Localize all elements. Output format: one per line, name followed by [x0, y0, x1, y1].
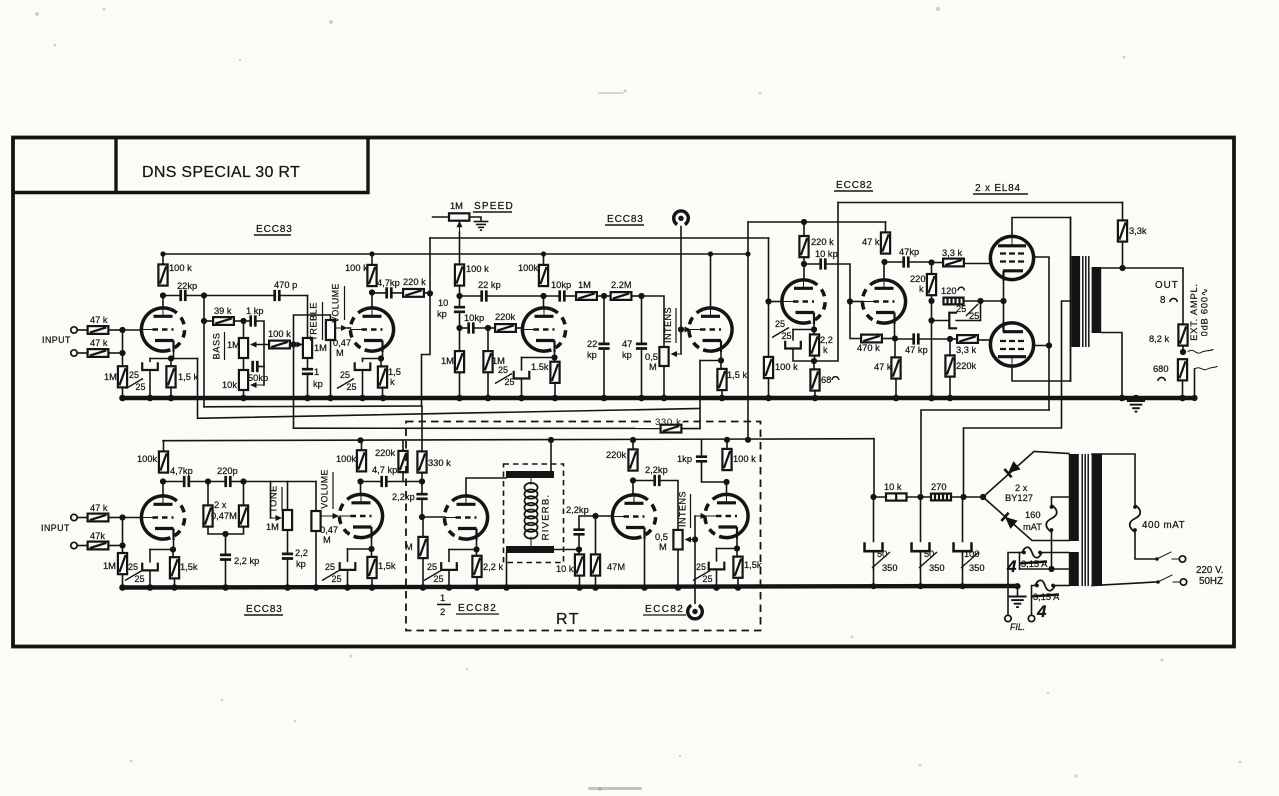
- resistor 100k (V1b plate load): [367, 265, 376, 286]
- resistor 270 ohm (PSU filter, wirewound): [931, 494, 951, 501]
- node V3b plate: [881, 259, 887, 265]
- svg-text:25: 25: [340, 370, 350, 380]
- potentiometer 10k (bass shunt): [239, 370, 248, 390]
- junction on ch1 bus x=362.5: [359, 395, 366, 402]
- svg-text:220k: 220k: [606, 450, 627, 460]
- node ch2 grid junction: [119, 514, 125, 520]
- node filament common: [1048, 566, 1054, 572]
- NFB wire to treble network: [293, 345, 295, 429]
- svg-text:100 k: 100 k: [268, 329, 291, 339]
- node treble wiper junction: [290, 341, 296, 347]
- resistor 2.2k (V3a cathode): [810, 334, 819, 355]
- wire wiper riser to V6b grid and jack: [694, 516, 696, 603]
- wire 8.2k to node: [1182, 346, 1184, 352]
- wire V3b cathode: [894, 325, 896, 339]
- node 39k input: [201, 318, 207, 324]
- wire 220k bottom: [402, 472, 404, 481]
- potentiometer TREBLE 1M: [303, 338, 312, 358]
- diode BY127 (upper): [1004, 461, 1020, 477]
- wire to 2.2kp ch2: [225, 534, 227, 553]
- resistor 47k (V3b cathode): [891, 357, 900, 378]
- wire 1.5k V6b to bus: [737, 578, 739, 588]
- junction on ch2 bus x=506.5: [503, 584, 510, 591]
- svg-text:0,47: 0,47: [333, 338, 351, 348]
- junction on ch1 bus x=1122: [1119, 395, 1126, 402]
- wire V4b plate: [360, 482, 362, 495]
- wire to rail: [543, 254, 545, 265]
- title box: [13, 138, 368, 193]
- svg-text:50: 50: [877, 549, 887, 559]
- wire SPEED left lead: [433, 216, 449, 218]
- input terminal 2 (ch2): [71, 542, 77, 548]
- node B+ rail ch1 left end: [160, 251, 165, 256]
- svg-text:4,7kp: 4,7kp: [170, 466, 193, 476]
- wire 47kp2 to node: [918, 338, 950, 340]
- node V6a plate: [630, 477, 636, 483]
- junction on ch2 bus x=316: [313, 584, 320, 591]
- resistor 100k (tone): [269, 341, 290, 349]
- wire send line into 330k: [421, 406, 423, 451]
- wire elco to bus: [149, 570, 151, 587]
- wire to BASS pot: [243, 321, 245, 338]
- wire 50kp right to wiper line: [257, 366, 264, 368]
- node rail at V2b: [708, 251, 713, 256]
- svg-text:8: 8: [1160, 295, 1166, 306]
- svg-text:10 kp: 10 kp: [815, 249, 838, 259]
- svg-text:2,2kp: 2,2kp: [392, 492, 415, 502]
- node rectifier output: [980, 494, 986, 500]
- svg-text:10: 10: [438, 298, 448, 308]
- svg-text:k: k: [390, 377, 395, 387]
- svg-text:220 V.: 220 V.: [1196, 565, 1223, 576]
- wire cathode to elco V4b: [348, 548, 372, 550]
- wire x=204 down (crosses bus): [203, 321, 205, 407]
- potentiometer VOLUME 0.47M (ch2): [311, 511, 320, 531]
- svg-text:47: 47: [622, 339, 632, 349]
- wire elco lead V5a: [448, 550, 450, 564]
- wire 680 to bus: [1182, 380, 1184, 398]
- wire to elco 25/25: [149, 359, 151, 364]
- triode V2b (ECC83): [689, 308, 732, 352]
- wire 22kp to bus: [603, 351, 605, 399]
- capacitor 47kp (shunt): [636, 344, 647, 349]
- wire reverb top bar to B+ rail: [550, 440, 552, 471]
- resistor 0.47M b (ch2 divider): [239, 505, 248, 526]
- svg-text:0,47M: 0,47M: [211, 511, 237, 521]
- node 120ohm left: [928, 298, 934, 304]
- capacitor 50/350 (PSU filter): [912, 542, 930, 551]
- wire 100k down: [459, 286, 461, 296]
- node V4a plate: [160, 478, 166, 484]
- node ch1 grid junction: [119, 327, 125, 333]
- resistor 120 ohm (cathode bias, wirewound): [944, 298, 964, 305]
- svg-text:47kp: 47kp: [899, 247, 919, 257]
- wire V6a plate: [632, 481, 634, 496]
- resistor 1M (V2a grid leak): [483, 351, 492, 372]
- wire 10kp to V3b grid: [825, 264, 850, 302]
- junction on ch2 bus x=579.5: [576, 584, 583, 591]
- capacitor 47kp (to EL84 grid 2): [914, 333, 919, 344]
- junction on B+ rail x=360.5: [357, 437, 363, 443]
- capacitor 25/25 (V6b bypass): [709, 562, 725, 570]
- node ch1 input b junction: [119, 350, 125, 356]
- svg-text:1M: 1M: [227, 340, 240, 350]
- junction on ch1 bus x=931.5: [928, 395, 935, 402]
- node V3a grid: [765, 298, 771, 304]
- wire EL84 cathodes common: [1003, 281, 1005, 332]
- wire cathode to elco V5a: [449, 549, 477, 551]
- svg-text:RIVERB.: RIVERB.: [541, 494, 552, 541]
- junction on ch2 bus x=122.5: [119, 584, 126, 591]
- svg-text:ECC83: ECC83: [256, 224, 293, 235]
- node PSU ground: [1014, 583, 1020, 589]
- svg-text:1.5k: 1.5k: [531, 362, 549, 372]
- wire fuse2 right: [1055, 585, 1069, 587]
- wire 1M b to bus: [487, 372, 489, 398]
- potentiometer TONE 1M: [283, 510, 292, 530]
- resistor 100k (V4b plate load): [357, 450, 366, 471]
- svg-text:25: 25: [703, 574, 713, 584]
- svg-text:kp: kp: [587, 350, 597, 360]
- wire elco lead V6b: [716, 549, 718, 563]
- ground bus (channel 1): [123, 396, 1195, 400]
- wire 47kp to bus: [641, 351, 643, 399]
- svg-text:1 kp: 1 kp: [246, 306, 264, 316]
- capacitor 1kp (tone): [251, 315, 256, 326]
- svg-text:47 k: 47 k: [90, 338, 108, 348]
- wire 2.2k to node: [814, 356, 816, 361]
- resistor 220k (grid stopper): [495, 324, 516, 332]
- svg-text:1,5: 1,5: [388, 367, 401, 377]
- resistor 47k (ch1 input b): [88, 349, 109, 357]
- wire node to 0.5M pot top: [642, 296, 665, 347]
- resistor 2.2M (intens divider): [611, 292, 632, 300]
- junction on ch2 bus x=477: [474, 584, 481, 591]
- junction on ch1 bus x=768.5: [765, 395, 772, 402]
- wire 4.7kp to 220k: [391, 292, 403, 294]
- wire BASS bottom to bus: [243, 358, 245, 398]
- wire to 1.5k V1b: [380, 359, 382, 367]
- wire primary top to 400mAT fuse: [1092, 454, 1135, 505]
- svg-text:4: 4: [1036, 602, 1047, 621]
- wire node to 1kp: [244, 320, 251, 322]
- wire 220k to V2a grid: [516, 327, 523, 329]
- wire ext amp ground lead (squiggle): [1194, 369, 1196, 398]
- resistor 10k (reverb load): [575, 554, 584, 575]
- capacitor 2.2kp (tone shunt ch2): [282, 554, 293, 559]
- svg-text:330 k: 330 k: [428, 458, 451, 468]
- svg-text:10 k: 10 k: [884, 482, 902, 492]
- reverb input transducer bar: [506, 471, 554, 478]
- svg-text:3,3 k: 3,3 k: [942, 248, 963, 258]
- node ch2 input b: [119, 542, 125, 548]
- svg-text:M: M: [323, 535, 331, 545]
- node elco 25/25 left: [928, 317, 934, 323]
- output jack (RT out): [688, 605, 703, 619]
- svg-text:47k: 47k: [90, 531, 105, 541]
- transformer T2 primary winding: [1092, 454, 1102, 586]
- wire elco lead: [362, 359, 364, 364]
- wire tone top: [287, 482, 289, 511]
- wire to 1.5k V6b: [736, 549, 738, 557]
- svg-text:2,2: 2,2: [295, 548, 308, 558]
- node NFB takeoff: [1119, 265, 1125, 271]
- resistor 220k (ch2 mix): [398, 451, 407, 472]
- input terminal 1 (ch2): [71, 514, 77, 520]
- wire elco lead: [149, 550, 151, 564]
- wire 3.3k2 to EL84b grid: [978, 339, 991, 341]
- reverb output transducer bar: [506, 546, 554, 553]
- node secondary ground: [1119, 395, 1125, 401]
- wire 47k to rail: [885, 222, 887, 232]
- wire cathode to 1.5k: [720, 361, 722, 369]
- svg-text:120: 120: [941, 286, 957, 296]
- svg-text:220k: 220k: [956, 361, 977, 371]
- wire ch2 input2: [77, 545, 87, 547]
- junction on ch2 bus x=644.5: [641, 584, 648, 591]
- wire secondary top to output: [1101, 268, 1183, 325]
- wire 220k to vertical: [424, 292, 430, 294]
- svg-text:25: 25: [969, 311, 979, 321]
- svg-text:25: 25: [332, 574, 342, 584]
- capacitor 25/25 (EL84 cathode bypass): [949, 313, 957, 329]
- svg-text:1kp: 1kp: [677, 454, 692, 464]
- wiper SPEED pot: [459, 226, 461, 232]
- resistor 1M (tremolo leak): [455, 351, 464, 372]
- wire to 0.47M a: [207, 482, 209, 506]
- junction on ch1 bus x=243.5: [240, 395, 247, 402]
- svg-text:220k: 220k: [495, 312, 516, 322]
- wire treble node to volume top: [294, 315, 331, 345]
- wire elco left lead: [932, 320, 949, 322]
- capacitor 25/25 (V3a bypass): [785, 341, 801, 349]
- svg-text:0,47: 0,47: [320, 525, 338, 535]
- wiper 10k pot: [255, 384, 264, 386]
- wire ch2 input1: [77, 517, 87, 519]
- wire V3a grid lead: [769, 301, 783, 303]
- wire NFB line B: [198, 359, 701, 419]
- wire V5a plate to reverb coil: [466, 478, 506, 496]
- wire 220k to RT rail: [632, 440, 634, 449]
- wire to 0.47M b: [243, 482, 245, 506]
- node V6b cathode: [734, 545, 740, 551]
- wire to 39k: [204, 320, 213, 322]
- wiper TREBLE pot: [290, 344, 298, 346]
- wire 1kp to 50kp vertical: [255, 321, 264, 367]
- wire node to 1M b: [487, 328, 489, 351]
- triode V6b (ECC82 RT output): [705, 494, 748, 538]
- svg-text:47 k: 47 k: [874, 362, 892, 372]
- capacitor 50kp (bass): [253, 361, 258, 372]
- junction filter cap ground x=920.5: [917, 583, 923, 589]
- wire to V5a grid: [422, 516, 445, 518]
- wire elco lead v2a: [521, 358, 523, 372]
- capacitor 25/25 (V4a bypass): [142, 563, 158, 571]
- resistor 1M (ch1 grid leak): [118, 366, 127, 387]
- svg-text:25: 25: [956, 304, 966, 314]
- wire elco to bus v2a: [521, 379, 523, 399]
- wire reverb bottom bar left to bus: [506, 553, 508, 588]
- svg-text:2,2: 2,2: [820, 335, 833, 345]
- node 680 ground: [1179, 395, 1185, 401]
- svg-text:ECC82: ECC82: [458, 603, 497, 614]
- wire 3.3k to EL84a grid: [964, 263, 991, 265]
- svg-text:2,2kp: 2,2kp: [645, 465, 668, 475]
- svg-text:4,7kp: 4,7kp: [377, 278, 400, 288]
- node 0.47M a: [205, 478, 211, 484]
- wire V2b cathode: [720, 353, 722, 361]
- svg-text:350: 350: [882, 563, 898, 573]
- potentiometer BASS 1M: [239, 338, 248, 358]
- wire 2.2M to node: [631, 295, 641, 297]
- junction on ch2 bus x=716.5: [713, 584, 720, 591]
- svg-text:100k: 100k: [518, 263, 539, 273]
- svg-text:160: 160: [1025, 510, 1041, 520]
- resistor 68 ohm (hum balance): [810, 369, 819, 390]
- wire node down to 39k: [203, 296, 205, 322]
- wire primary connection line: [1070, 218, 1072, 382]
- svg-text:OUT: OUT: [1155, 280, 1179, 291]
- svg-text:INPUT: INPUT: [42, 335, 71, 345]
- resistor 47M (V6a grid leak): [591, 554, 600, 575]
- triode V4b (ECC83 b, ch2): [339, 494, 382, 538]
- transformer T1 output primary winding: [1072, 256, 1081, 347]
- wire cathode to 1.5k: [170, 359, 172, 367]
- capacitor 10kp (splitter coupling): [821, 258, 826, 269]
- svg-text:100k: 100k: [137, 454, 158, 464]
- capacitor 10kp (V2a coupling): [560, 290, 565, 301]
- transformer T2 core: [1082, 454, 1088, 586]
- wire elco loop V3a: [793, 329, 814, 331]
- switch (mains, pole 1): [1155, 557, 1159, 561]
- resistor 1M (ch2 grid leak): [118, 553, 127, 574]
- terminal FIL b: [1028, 615, 1034, 621]
- RT dashed enclosure: [406, 422, 761, 631]
- node V1a plate: [160, 292, 166, 298]
- wiper VOLUME to V1b grid: [335, 327, 342, 329]
- svg-text:0,5: 0,5: [655, 532, 668, 542]
- junction on B+ rail x=551: [548, 437, 554, 443]
- wire to bus: [287, 560, 289, 587]
- wire filter cap to bus x=962.5: [962, 551, 964, 586]
- junction on ch2 bus x=225.5: [222, 584, 229, 591]
- fuse 3.15A (fil 1): [1022, 547, 1042, 558]
- node V3b cathode: [892, 335, 898, 341]
- terminal FIL a: [1005, 615, 1011, 621]
- wire to V6b grid: [695, 515, 702, 517]
- svg-text:ECC83: ECC83: [246, 604, 283, 615]
- wire V6b cathode: [736, 539, 738, 549]
- wire 100k to B+ rail: [162, 254, 164, 264]
- reverb spring coil: [524, 483, 537, 492]
- wire 470p to treble: [279, 295, 307, 297]
- wire x=931 down to bus (crosses): [931, 295, 933, 398]
- wire plate to 22kp: [163, 295, 181, 297]
- wire to V4a grid: [123, 517, 142, 519]
- wire R47k b to node: [108, 352, 122, 354]
- wire wiper to V1b grid: [348, 327, 351, 329]
- resistor 47k (ch2 input b): [88, 542, 109, 550]
- wire 1M to ch2 bus: [422, 558, 424, 587]
- junction on ch2 bus x=423: [420, 584, 427, 591]
- wire 10k to bus: [579, 576, 581, 588]
- wire plate to 4.7kp: [372, 292, 387, 294]
- svg-text:25: 25: [782, 331, 792, 341]
- svg-text:2,2kp: 2,2kp: [566, 505, 589, 515]
- wire x=700 vertical (crosses bus): [699, 361, 701, 429]
- wire volume bottom ch2: [315, 531, 317, 588]
- reverb tank dashed box: [504, 464, 564, 563]
- svg-text:k: k: [919, 284, 924, 294]
- pentode EL84 (upper): [990, 236, 1033, 281]
- wire NFB line C to 330k: [294, 427, 661, 429]
- wire node to 470p: [204, 295, 275, 297]
- wire 2.2kp to intens pot: [659, 481, 678, 531]
- svg-text:2 x: 2 x: [1015, 483, 1028, 493]
- resistor 8.2k (ext amp divider): [1178, 324, 1187, 345]
- wire vertical x=430: [429, 238, 431, 293]
- resistor 10k (PSU filter): [886, 493, 907, 500]
- svg-text:3,3 k: 3,3 k: [956, 345, 977, 355]
- resistor 220k (V3a plate load): [799, 236, 808, 257]
- capacitor 22kp (stage 2 coupling): [482, 290, 487, 301]
- junction on ch2 bus x=150: [147, 584, 154, 591]
- triode V6a (ECC82 reverb recovery): [612, 495, 655, 539]
- wire cathode to 47kp2: [895, 338, 914, 340]
- node V1b cathode: [378, 355, 384, 361]
- wire plate to 2.2kp out: [633, 480, 655, 482]
- wiper BASS pot: [255, 344, 269, 346]
- wire ECC82 plate rail y=222: [748, 221, 886, 223]
- svg-text:4,7 kp: 4,7 kp: [372, 465, 397, 475]
- svg-text:EXT. AMPL.: EXT. AMPL.: [1189, 283, 1199, 341]
- wire primary bottom to switch 2: [1092, 582, 1156, 586]
- svg-text:100 k: 100 k: [775, 362, 798, 372]
- wire EL84a screen: [1034, 257, 1049, 410]
- svg-text:25: 25: [347, 382, 357, 392]
- svg-text:ECC82: ECC82: [836, 180, 873, 191]
- svg-text:10kp: 10kp: [464, 313, 484, 323]
- wire 100k V4b to rail: [361, 440, 363, 450]
- wire 1M to node: [597, 295, 604, 297]
- junction on ch1 bus x=722: [719, 395, 726, 402]
- wire V2a plate: [543, 296, 545, 308]
- wire 47k to bus: [895, 379, 897, 398]
- resistor 100k (V1a plate load): [158, 264, 167, 285]
- wire to RT input node: [403, 481, 422, 483]
- wire node to 1M: [459, 328, 461, 351]
- svg-text:M: M: [659, 542, 667, 552]
- triode V1b (ECC83 b, ch1): [350, 308, 393, 352]
- node ext amp tap: [1180, 349, 1186, 355]
- input terminal 1 (ch1): [71, 327, 77, 333]
- junction on ch1 bus x=950: [947, 395, 954, 402]
- junction on ch1 bus x=641.5: [638, 395, 645, 402]
- capacitor 25/25 (V1a cathode bypass): [142, 362, 158, 370]
- wire NFB top rail y=202.5: [838, 202, 1123, 204]
- svg-text:47 k: 47 k: [90, 503, 108, 513]
- node rail at V1b: [369, 251, 374, 256]
- wire secondary bottom to ground: [1101, 333, 1122, 399]
- wire 4.7kp to 220k node: [386, 481, 403, 483]
- capacitor 22kp (shunt): [598, 344, 609, 349]
- potentiometer VOLUME 0.47M (ch1): [326, 320, 335, 340]
- svg-text:1M: 1M: [104, 372, 117, 382]
- node V3a cathode: [811, 326, 817, 332]
- node reverb output: [576, 546, 582, 552]
- wire input junction vertical: [122, 330, 124, 366]
- junction on ch2 bus x=738: [735, 584, 742, 591]
